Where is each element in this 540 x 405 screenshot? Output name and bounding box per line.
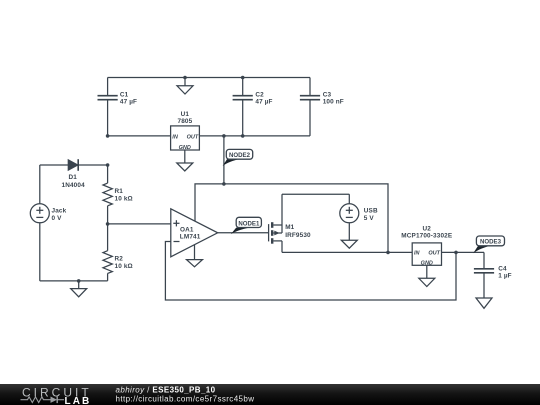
ground C4 [476,298,492,308]
ground U1 [177,150,193,171]
svg-text:GND: GND [421,260,433,266]
resistor R1 [103,165,112,224]
svg-text:47 µF: 47 µF [120,98,137,105]
node flag NODE1 [231,217,262,234]
ground bottom left [71,281,87,297]
capacitor C1 [98,78,118,136]
wire top rail [108,77,310,79]
regulator U1 box [171,126,200,150]
svg-text:47 µF: 47 µF [255,98,272,105]
wire U1 OUT rail [199,135,310,137]
svg-text:1N4004: 1N4004 [62,182,86,189]
capacitor C3 [300,78,320,136]
wire vplus rail [195,184,388,253]
wire U1 IN [108,135,171,137]
svg-text:5 V: 5 V [364,215,375,222]
node flag NODE2 [223,149,253,166]
wire bottom rail [282,251,412,253]
svg-text:C2: C2 [255,91,264,98]
svg-text:C4: C4 [498,265,507,272]
svg-text:LAB: LAB [65,396,92,405]
resistor R2 [103,224,112,281]
svg-text:C1: C1 [120,91,129,98]
ground top [177,78,193,95]
svg-text:NODE3: NODE3 [480,239,502,246]
svg-text:OA1: OA1 [180,226,194,233]
regulator U2 box [412,243,441,265]
svg-text:http://circuitlab.com/ce5r7ssr: http://circuitlab.com/ce5r7ssrc45bw [116,395,255,404]
svg-text:U1: U1 [181,111,190,118]
svg-text:10 kΩ: 10 kΩ [115,195,133,202]
svg-text:IN: IN [414,251,421,257]
source Jack [30,165,49,281]
node flag NODE3 [473,236,504,253]
svg-text:1 µF: 1 µF [498,273,512,280]
svg-text:R1: R1 [115,188,124,195]
svg-text:D1: D1 [69,174,78,181]
ground usb [341,240,357,248]
wire opamp plus input [108,223,171,225]
capacitor C4 [474,252,494,298]
ground opamp [187,245,203,267]
diode D1 [40,159,108,171]
svg-text:GND: GND [179,145,191,151]
svg-text:C3: C3 [323,91,332,98]
svg-text:abhiroy / ESE350_PB_10: abhiroy / ESE350_PB_10 [116,386,216,395]
wire feedback loop [165,242,456,301]
footer bar [0,384,540,405]
source USB [340,194,359,240]
svg-text:M1: M1 [285,224,294,231]
svg-text:NODE1: NODE1 [238,221,260,228]
ground U2 [419,265,435,286]
op-amp OA1 [171,209,218,257]
pin labels U1 [172,135,440,267]
capacitor C2 [233,78,253,136]
wire U2 out [442,251,484,253]
svg-text:10 kΩ: 10 kΩ [115,263,133,270]
svg-text:USB: USB [364,208,378,215]
svg-text:IN: IN [172,135,179,141]
wire usb top [282,193,349,195]
svg-text:LM741: LM741 [180,233,201,240]
svg-text:MCP1700-3302E: MCP1700-3302E [401,233,453,240]
svg-text:NODE2: NODE2 [229,152,251,159]
svg-text:OUT: OUT [187,135,199,141]
svg-text:100 nF: 100 nF [323,98,344,105]
svg-text:IRF9530: IRF9530 [285,232,311,239]
svg-text:Jack: Jack [52,207,67,214]
transistor M1 [269,194,282,252]
wire bottom left [40,280,108,282]
svg-text:0 V: 0 V [52,215,63,222]
svg-text:OUT: OUT [428,251,440,257]
wire node2 vertical [223,136,225,184]
svg-text:7805: 7805 [177,118,192,125]
svg-text:R2: R2 [115,255,124,262]
wire opamp output [218,232,269,234]
